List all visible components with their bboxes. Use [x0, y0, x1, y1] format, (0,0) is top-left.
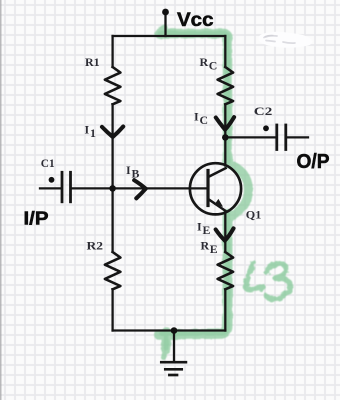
svg-text:I/P: I/P	[24, 208, 49, 229]
svg-text:Q1: Q1	[246, 207, 262, 221]
svg-text:O/P: O/P	[297, 151, 330, 173]
svg-text:IE: IE	[197, 220, 210, 238]
svg-text:C1: C1	[41, 156, 55, 170]
svg-text:RC: RC	[200, 55, 218, 73]
svg-text:I1: I1	[85, 123, 96, 141]
svg-text:C2: C2	[254, 104, 272, 118]
svg-text:RE: RE	[201, 239, 218, 257]
svg-text:IC: IC	[194, 110, 208, 128]
svg-text:IB: IB	[126, 163, 139, 181]
svg-text:R1: R1	[85, 55, 100, 69]
svg-text:R2: R2	[87, 239, 104, 253]
svg-text:Vcc: Vcc	[177, 9, 214, 31]
